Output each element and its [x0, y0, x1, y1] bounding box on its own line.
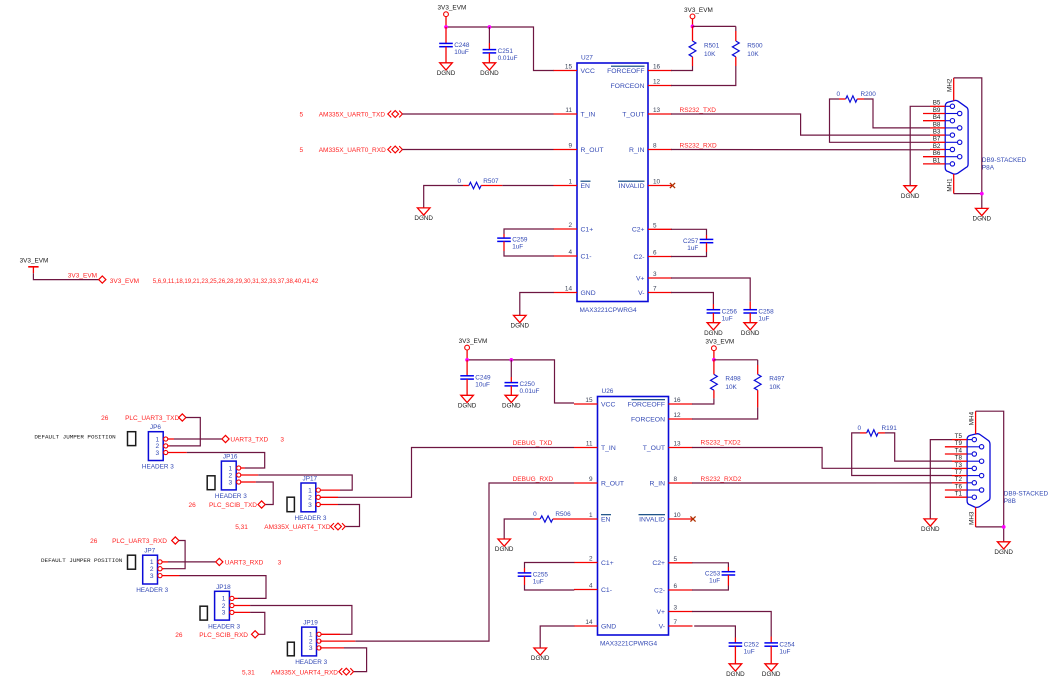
svg-text:U27: U27: [581, 55, 593, 62]
svg-text:AM335X_UART4_TXD: AM335X_UART4_TXD: [264, 524, 331, 531]
wire JP17 pin3 to AM335X_UART4_TXD: [338, 505, 360, 527]
svg-text:DB9-STACKED: DB9-STACKED: [1004, 490, 1049, 497]
svg-text:C259: C259: [512, 237, 528, 244]
svg-text:DGND: DGND: [921, 526, 940, 533]
ground DGND under C249: [458, 395, 477, 409]
no-connect X on U26 INVALID pin10: [690, 516, 695, 521]
svg-text:DEBUG_RXD: DEBUG_RXD: [513, 476, 554, 483]
svg-text:5: 5: [653, 223, 657, 230]
svg-text:26: 26: [188, 502, 196, 509]
svg-text:B5: B5: [933, 100, 941, 107]
ground DGND under U27: [511, 315, 530, 329]
svg-text:GND: GND: [581, 290, 596, 297]
svg-text:FORCEOFF: FORCEOFF: [628, 401, 665, 408]
ground DGND under B5 wire: [901, 186, 920, 200]
capacitor C258 1uF: [743, 308, 774, 322]
svg-text:C255: C255: [533, 572, 549, 579]
wire JP6 pin3 stub: [168, 452, 187, 454]
svg-text:T9: T9: [955, 440, 963, 447]
svg-text:5: 5: [300, 112, 304, 119]
svg-text:1uF: 1uF: [687, 245, 698, 252]
wire C249 bottom lead: [466, 379, 468, 395]
off-page connector AM335X_UART4_RXD: [339, 668, 354, 675]
svg-text:R200: R200: [861, 91, 877, 98]
wire C248 top lead: [445, 27, 447, 43]
wire DB9 B5 to ground: [910, 106, 930, 185]
svg-text:3: 3: [150, 573, 154, 580]
wire U26 C1+ to C255: [525, 563, 575, 569]
svg-text:1: 1: [222, 596, 226, 603]
svg-text:3: 3: [653, 271, 657, 278]
wire R200 right to DB9 B8: [864, 99, 930, 128]
off-page connector AM335X_UART0_RXD: [388, 146, 403, 153]
wire R497 bottom lead: [757, 390, 759, 407]
svg-text:UART3_RXD: UART3_RXD: [225, 560, 264, 567]
svg-text:HEADER 3: HEADER 3: [208, 623, 240, 630]
svg-text:JP19: JP19: [303, 620, 318, 627]
node junction at R501: [691, 25, 695, 29]
connector header JP7: [136, 548, 168, 595]
wire JP6 pin3 to JP16 pin1: [187, 453, 265, 469]
wire R501 bottom lead: [692, 57, 694, 66]
svg-text:DGND: DGND: [458, 403, 477, 410]
connector DB9-STACKED P8A: [923, 78, 1027, 194]
svg-text:P8B: P8B: [1004, 498, 1016, 505]
wire DB9 T5 to ground: [930, 440, 952, 519]
no-connect X on U27 INVALID pin10: [670, 183, 675, 188]
node junction at C250: [509, 358, 513, 362]
svg-text:C248: C248: [454, 42, 470, 49]
svg-text:C2+: C2+: [632, 227, 645, 234]
svg-text:3V3_EVM: 3V3_EVM: [68, 273, 97, 280]
wire 3V3_EVM lead: [692, 19, 694, 27]
svg-text:DEFAULT JUMPER POSITION: DEFAULT JUMPER POSITION: [41, 557, 123, 564]
wire R500 bottom lead: [735, 57, 737, 66]
wire R200 left to DB9 B7: [830, 99, 931, 142]
svg-text:3: 3: [280, 437, 284, 444]
svg-text:DB9-STACKED: DB9-STACKED: [982, 157, 1027, 164]
capacitor C248 10uF: [439, 42, 470, 56]
wire R500 to U27 pin12: [671, 66, 736, 86]
svg-text:T2: T2: [955, 476, 963, 483]
svg-text:3V3_EVM: 3V3_EVM: [20, 257, 49, 264]
svg-text:1: 1: [229, 465, 233, 472]
wire C258 to ground: [749, 313, 751, 323]
node junction at C251: [488, 25, 492, 29]
wire JP17 pin2 stub: [320, 496, 338, 498]
svg-text:R191: R191: [882, 425, 898, 432]
wire JP6 pin1 to UART3_TXD: [174, 438, 222, 440]
svg-text:T_OUT: T_OUT: [622, 111, 644, 118]
wire R191 right to DB9 T8: [885, 433, 952, 461]
svg-text:7: 7: [674, 619, 678, 626]
svg-text:3: 3: [222, 610, 226, 617]
svg-text:PLC_UART3_RXD: PLC_UART3_RXD: [112, 538, 167, 545]
wire MH1 to ground bus: [954, 193, 982, 195]
svg-text:R500: R500: [747, 42, 763, 49]
svg-text:MH3: MH3: [968, 511, 975, 525]
svg-text:MAX3221CPWRG4: MAX3221CPWRG4: [600, 641, 657, 648]
resistor R200 0 ohm: [836, 91, 876, 102]
svg-text:EN: EN: [601, 516, 611, 523]
svg-text:T_OUT: T_OUT: [643, 445, 665, 452]
capacitor C254 1uF: [764, 642, 795, 656]
svg-text:DGND: DGND: [414, 215, 433, 222]
svg-text:T_IN: T_IN: [601, 445, 616, 452]
op-amp U27 MAX3221CPWRG4 transceiver: [554, 55, 673, 315]
wire junction to R497: [714, 359, 758, 361]
svg-text:T7: T7: [955, 469, 963, 476]
connector header JP6: [142, 424, 174, 471]
svg-text:10K: 10K: [704, 51, 716, 58]
svg-text:3: 3: [309, 645, 313, 652]
capacitor C257 1uF: [683, 238, 713, 252]
svg-text:4: 4: [568, 249, 572, 256]
off-page connector AM335X_UART0_TXD: [388, 111, 403, 118]
wire R191 left to DB9 T7: [852, 433, 952, 476]
svg-text:R_IN: R_IN: [650, 480, 666, 487]
svg-text:3V3_EVM: 3V3_EVM: [705, 339, 734, 346]
svg-text:VCC: VCC: [581, 68, 595, 75]
svg-text:C2-: C2-: [634, 254, 645, 261]
svg-text:R_OUT: R_OUT: [581, 147, 604, 154]
wire DEBUG_RXD JP19 pin2 to U26 R_OUT: [355, 483, 574, 641]
wire JP7 pin1 to UART3_RXD: [168, 561, 216, 563]
svg-text:7: 7: [653, 286, 657, 293]
svg-text:PLC_SCIB_RXD: PLC_SCIB_RXD: [199, 632, 248, 639]
svg-text:C254: C254: [779, 642, 795, 649]
wire MH4 to ground bus: [976, 411, 1004, 542]
svg-text:0: 0: [836, 91, 840, 98]
wire junction to R500: [693, 25, 736, 27]
svg-text:C1+: C1+: [581, 226, 594, 233]
wire C257 to U27 C2-: [706, 243, 708, 252]
wire JP7 pin1 stub: [162, 561, 168, 563]
jumper rectangle at JP6: [128, 432, 136, 446]
wire JP19 pin2 stub: [320, 640, 355, 642]
wire C254 to ground: [770, 646, 772, 664]
svg-text:HEADER 3: HEADER 3: [295, 659, 327, 666]
svg-text:C256: C256: [722, 308, 738, 315]
svg-text:9: 9: [568, 143, 572, 150]
svg-text:B2: B2: [933, 143, 941, 150]
resistor R191 0 ohm: [857, 425, 897, 436]
wire C255 to U26 C1-: [524, 576, 526, 585]
wire DGND to R506: [504, 519, 534, 539]
capacitor C253 1uF: [705, 570, 735, 584]
jumper rectangle at JP17: [287, 497, 294, 512]
svg-text:14: 14: [565, 286, 573, 293]
svg-text:V-: V-: [638, 290, 644, 297]
svg-text:15: 15: [565, 64, 573, 71]
svg-text:12: 12: [674, 412, 682, 419]
power symbol 3V3_EVM (feeds U26 VCC): [459, 338, 488, 350]
wire JP18 pin2 to JP19 pin1: [250, 606, 352, 635]
wire JP6 pin2 stub: [168, 445, 170, 447]
svg-text:2: 2: [229, 472, 233, 479]
jumper rectangle at JP18: [200, 606, 207, 620]
svg-text:V+: V+: [636, 275, 645, 282]
svg-text:T_IN: T_IN: [581, 111, 596, 118]
svg-text:MH2: MH2: [946, 78, 953, 92]
ground DGND at R507: [414, 208, 433, 222]
svg-text:DEFAULT JUMPER POSITION: DEFAULT JUMPER POSITION: [34, 433, 116, 440]
svg-text:B6: B6: [933, 150, 941, 157]
wire PLC_UART3_RXD to JP7 pin2: [164, 541, 185, 569]
connector header JP19: [295, 620, 327, 667]
svg-text:RS232_TXD2: RS232_TXD2: [701, 440, 741, 447]
connector header JP16: [215, 454, 247, 501]
svg-text:HEADER 3: HEADER 3: [295, 515, 327, 522]
wire JP7 pin3 to JP18 pin1: [180, 576, 267, 599]
svg-text:JP17: JP17: [303, 476, 318, 483]
wire RS232_RXD to DB9 B2: [671, 149, 930, 151]
svg-text:5,31: 5,31: [242, 669, 255, 676]
wire C253 to U26 C2-: [727, 575, 729, 586]
svg-text:DGND: DGND: [704, 330, 723, 337]
power symbol 3V3_EVM (page list): [20, 257, 49, 273]
svg-text:C2-: C2-: [654, 587, 665, 594]
svg-text:DGND: DGND: [762, 671, 781, 678]
svg-text:DGND: DGND: [901, 193, 920, 200]
svg-text:INVALID: INVALID: [639, 516, 665, 523]
svg-text:11: 11: [565, 107, 572, 114]
wire C251 bottom lead: [488, 53, 490, 63]
svg-text:VCC: VCC: [601, 401, 615, 408]
wire R501 top lead: [692, 26, 694, 41]
resistor R501 10K: [689, 41, 720, 58]
svg-text:3V3_EVM: 3V3_EVM: [438, 5, 467, 12]
node connector diamond 3V3_EVM: [99, 276, 106, 283]
wire JP7 pin3 stub: [162, 575, 180, 577]
svg-text:EN: EN: [581, 183, 591, 190]
op-amp U26 MAX3221CPWRG4 transceiver: [574, 388, 693, 648]
svg-text:0.01uF: 0.01uF: [498, 55, 518, 62]
ground DGND under C254: [762, 664, 781, 678]
svg-text:1: 1: [568, 179, 572, 186]
capacitor C251 0.01uF: [483, 48, 518, 62]
wire 3V3_EVM lead to junction: [445, 17, 447, 27]
svg-text:C249: C249: [475, 374, 491, 381]
node connector diamond PLC_SCIB_RXD: [252, 631, 259, 638]
svg-text:R497: R497: [769, 376, 785, 383]
wire RS232_TXD to DB9 B3: [671, 114, 930, 135]
node junction MH3/ground: [1002, 525, 1006, 529]
svg-text:HEADER 3: HEADER 3: [215, 493, 247, 500]
wire U27 V+ to C258: [671, 278, 750, 302]
wire JP18 pin3 stub: [234, 611, 251, 613]
wire R498 top lead: [713, 360, 715, 375]
svg-text:1uF: 1uF: [533, 579, 544, 586]
node junction at C249: [465, 358, 469, 362]
connector header JP17: [295, 476, 327, 523]
svg-text:R_OUT: R_OUT: [601, 480, 624, 487]
wire C248 bottom lead: [445, 47, 447, 63]
svg-text:8: 8: [653, 143, 657, 150]
node connector diamond UART3_RXD: [216, 558, 223, 565]
ground DGND under U26: [531, 648, 550, 662]
svg-text:B1: B1: [933, 157, 941, 164]
wire U27 C2+ to C257: [671, 229, 707, 235]
wire U26 GND to ground: [540, 626, 574, 648]
svg-text:PLC_UART3_TXD: PLC_UART3_TXD: [125, 415, 179, 422]
capacitor C256 1uF: [707, 308, 738, 322]
svg-text:26: 26: [175, 632, 183, 639]
resistor R497 10K: [754, 374, 785, 391]
svg-text:HEADER 3: HEADER 3: [136, 587, 168, 594]
wire JP16 pin3 to PLC_SCIB_TXD: [256, 482, 273, 505]
svg-text:5: 5: [300, 147, 304, 154]
ground DGND under DB9 P8B: [994, 542, 1013, 556]
node connector diamond PLC_UART3_TXD: [179, 414, 186, 421]
svg-text:RS232_RXD: RS232_RXD: [680, 143, 718, 150]
svg-text:B8: B8: [933, 121, 941, 128]
node connector diamond PLC_UART3_RXD: [172, 537, 179, 544]
svg-text:FORCEON: FORCEON: [631, 416, 665, 423]
svg-text:AM335X_UART0_RXD: AM335X_UART0_RXD: [319, 147, 386, 154]
connector header JP18: [208, 584, 240, 631]
svg-text:JP16: JP16: [223, 454, 238, 461]
svg-text:DGND: DGND: [531, 655, 550, 662]
svg-text:0.01uF: 0.01uF: [520, 388, 540, 395]
ground DGND under C258: [741, 323, 760, 337]
svg-text:10K: 10K: [769, 384, 781, 391]
wire JP19 pin3 stub: [320, 647, 344, 649]
svg-text:RS232_RXD2: RS232_RXD2: [701, 476, 742, 483]
svg-text:B9: B9: [933, 107, 941, 114]
ground DGND under C251: [480, 63, 499, 77]
svg-text:8: 8: [674, 476, 678, 483]
svg-text:13: 13: [674, 441, 682, 448]
svg-text:2: 2: [568, 222, 572, 229]
svg-text:1: 1: [589, 512, 593, 519]
svg-text:P8A: P8A: [982, 165, 995, 172]
svg-text:12: 12: [653, 79, 661, 86]
svg-text:T4: T4: [955, 447, 963, 454]
svg-text:RS232_TXD: RS232_TXD: [680, 107, 717, 114]
wire C249 top lead: [466, 360, 468, 376]
wire C250 bottom lead: [510, 386, 512, 395]
jumper rectangle at JP16: [207, 476, 215, 490]
svg-text:0: 0: [533, 511, 537, 518]
connector DB9-STACKED P8B: [945, 411, 1049, 527]
svg-text:C1-: C1-: [581, 253, 592, 260]
wire JP6 pin1 stub: [168, 438, 174, 440]
svg-text:1uF: 1uF: [758, 315, 769, 322]
svg-text:5,31: 5,31: [235, 524, 248, 531]
svg-text:V-: V-: [659, 623, 665, 630]
wire R500 top lead: [735, 26, 737, 31]
wire JP18 pin1 stub: [234, 597, 238, 599]
svg-text:PLC_SCIB_TXD: PLC_SCIB_TXD: [209, 502, 257, 509]
svg-text:10uF: 10uF: [475, 381, 490, 388]
svg-text:C252: C252: [744, 642, 760, 649]
resistor R498 10K: [711, 374, 742, 391]
wire R498 bottom lead: [713, 390, 715, 398]
wire PLC_UART3_TXD to JP6 pin2: [170, 418, 200, 446]
power symbol 3V3_EVM (feeds R498/R497): [705, 339, 734, 351]
svg-text:T8: T8: [955, 455, 963, 462]
svg-text:1: 1: [308, 487, 312, 494]
svg-text:C251: C251: [498, 48, 514, 55]
svg-text:DGND: DGND: [480, 70, 499, 77]
wire C251 top lead: [488, 27, 490, 43]
wire R501 to U27 pin16: [671, 66, 693, 71]
svg-text:3V3_EVM: 3V3_EVM: [684, 7, 713, 14]
svg-text:C2+: C2+: [652, 560, 665, 567]
svg-text:AM335X_UART4_RXD: AM335X_UART4_RXD: [271, 669, 338, 676]
svg-text:26: 26: [101, 415, 109, 422]
wire JP16 pin2 to JP17 pin1: [258, 475, 352, 490]
svg-text:FORCEOFF: FORCEOFF: [607, 68, 644, 75]
svg-text:MH1: MH1: [946, 178, 953, 192]
wire RS232_TXD2 to DB9 T3: [692, 448, 952, 469]
wire JP19 pin3 to AM335X_UART4_RXD: [344, 648, 367, 672]
ground DGND under C250: [502, 395, 521, 409]
off-page connector AM335X_UART4_TXD: [331, 523, 346, 530]
ground DGND under C248: [437, 63, 456, 77]
svg-text:10uF: 10uF: [454, 49, 469, 56]
svg-text:JP7: JP7: [144, 548, 155, 555]
capacitor C249 10uF: [460, 374, 491, 388]
capacitor C255 1uF: [518, 572, 549, 586]
resistor R507 0 ohm: [457, 178, 502, 189]
svg-text:2: 2: [589, 556, 593, 563]
svg-text:1uF: 1uF: [722, 315, 733, 322]
svg-text:6: 6: [674, 583, 678, 590]
svg-text:16: 16: [653, 64, 661, 71]
node connector diamond PLC_SCIB_TXD: [258, 501, 265, 508]
resistor R506 0 ohm: [533, 511, 574, 522]
svg-text:10: 10: [674, 512, 682, 519]
svg-text:2: 2: [308, 495, 312, 502]
svg-text:B7: B7: [933, 136, 941, 143]
wire R507 to U27 EN pin1: [502, 185, 553, 187]
wire AM335X_UART0_RXD to U27 R_OUT: [402, 149, 553, 151]
wire 3V3_EVM lead: [713, 351, 715, 360]
capacitor C250 0.01uF: [505, 381, 540, 395]
capacitor C259 1uF: [497, 237, 528, 251]
svg-text:DGND: DGND: [511, 323, 530, 330]
svg-text:GND: GND: [601, 623, 616, 630]
wire U26 V+ to C254: [692, 612, 771, 637]
ground DGND at R506: [495, 539, 514, 553]
svg-text:U26: U26: [602, 388, 614, 395]
svg-text:UART3_TXD: UART3_TXD: [230, 437, 268, 444]
wire JP7 pin2 stub: [162, 568, 164, 570]
wire MH2 to ground bus: [954, 78, 982, 209]
svg-text:V+: V+: [656, 609, 665, 616]
wire AM335X_UART0_TXD to U27 T_IN: [402, 113, 553, 115]
node junction at C248: [444, 25, 448, 29]
svg-text:T1: T1: [955, 491, 963, 498]
svg-text:1uF: 1uF: [744, 649, 755, 656]
svg-text:10K: 10K: [747, 51, 759, 58]
svg-text:3: 3: [229, 479, 233, 486]
node junction at R498: [712, 358, 716, 362]
svg-text:T5: T5: [955, 433, 963, 440]
wire 3V3_EVM to net stub: [33, 273, 98, 279]
svg-text:B4: B4: [933, 114, 941, 121]
wire JP16 pin2 stub: [241, 474, 258, 476]
svg-text:DEBUG_TXD: DEBUG_TXD: [513, 440, 553, 447]
svg-text:C250: C250: [520, 381, 536, 388]
wire 3V3_EVM lead to junction: [466, 350, 468, 360]
wire JP16 pin1 stub: [241, 467, 245, 469]
svg-text:R507: R507: [483, 178, 499, 185]
svg-text:R501: R501: [704, 42, 720, 49]
svg-text:C258: C258: [758, 308, 774, 315]
